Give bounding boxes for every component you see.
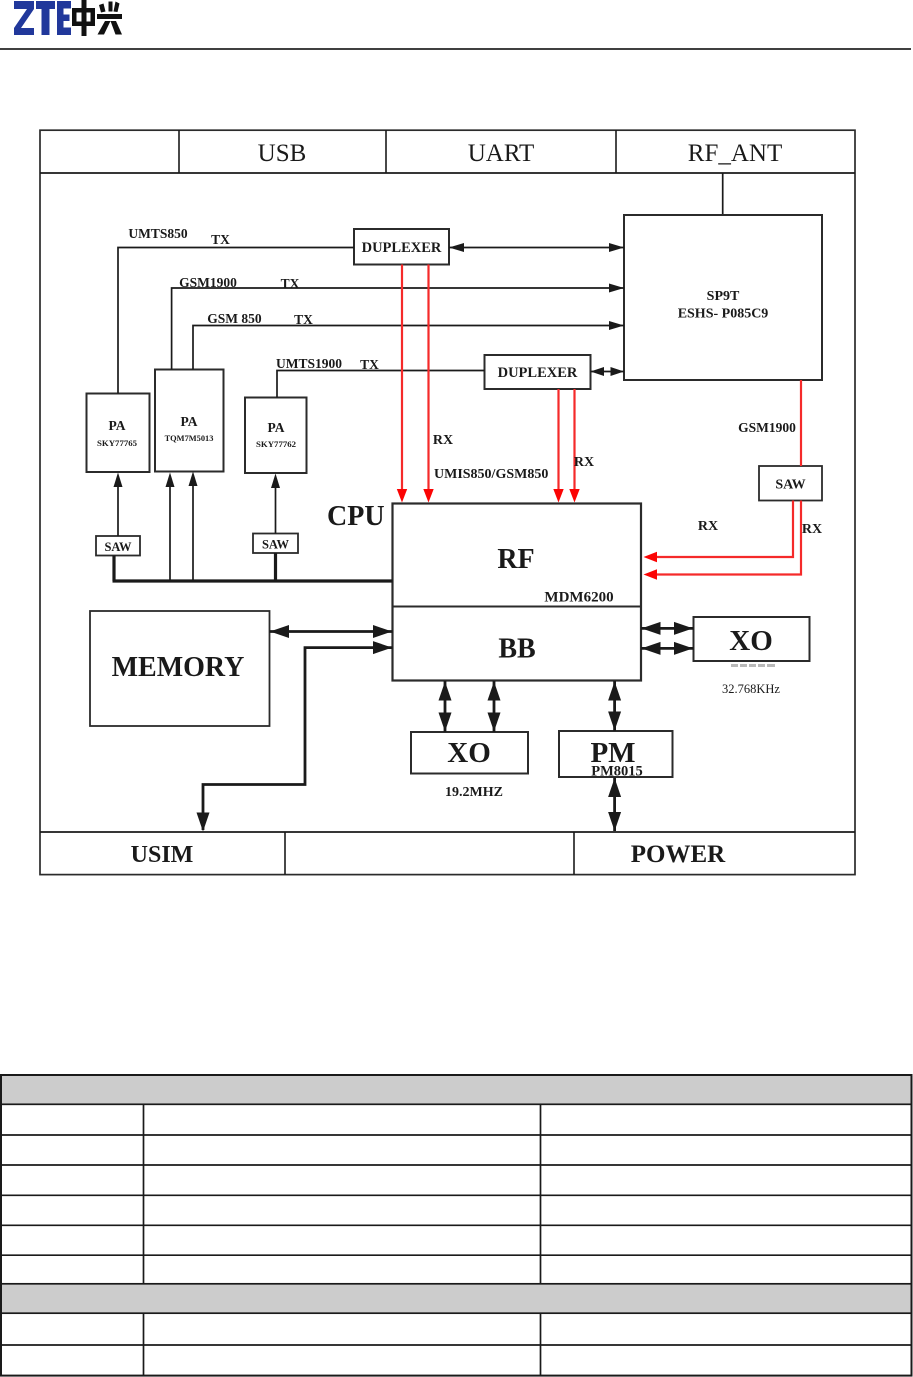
svg-text:PA: PA (181, 414, 198, 429)
svg-text:USB: USB (258, 140, 307, 167)
table row line 4 (1, 1224, 912, 1226)
top band divider 1 (178, 130, 180, 173)
wire TX bus to CPU (113, 579, 393, 582)
wire MEMORY to BB (270, 630, 393, 633)
SAW filter F1 (96, 536, 140, 556)
XO 32K block (694, 617, 810, 661)
bottom band line (40, 831, 855, 833)
MEMORY block (90, 611, 270, 726)
table row line 1 (1, 1134, 912, 1136)
CPU MDM6200 block (393, 504, 642, 681)
svg-text:GSM 850: GSM 850 (207, 311, 262, 326)
wire RX duplexer1 b (427, 265, 429, 493)
wire GSM1900 TX (172, 288, 624, 370)
table column divider 2 upper (540, 1104, 542, 1284)
svg-text:USIM: USIM (131, 842, 194, 868)
SAW filter F2 (253, 534, 298, 554)
table column divider 1 lower (143, 1313, 145, 1375)
table column divider 1 upper (143, 1104, 145, 1284)
svg-text:POWER: POWER (631, 841, 726, 868)
svg-text:19.2MHZ: 19.2MHZ (445, 785, 503, 800)
PA U4 SKY77765 (87, 394, 150, 473)
wire DUPLEXER1 to SP9T (449, 247, 624, 249)
duplexer U3 (485, 355, 591, 389)
wire SAW2 to PA3 (275, 478, 277, 534)
svg-text:GSM1900: GSM1900 (738, 420, 796, 435)
svg-text:BB: BB (498, 634, 535, 665)
svg-text:SAW: SAW (262, 538, 290, 552)
svg-text:UMTS850: UMTS850 (128, 226, 188, 241)
svg-text:DUPLEXER: DUPLEXER (362, 240, 442, 256)
table row line 3 (1, 1194, 912, 1196)
wire BB to USIM (203, 648, 393, 830)
wire DUPLEXER2 to SP9T (591, 371, 625, 373)
svg-text:TX: TX (294, 312, 313, 327)
wire UMTS1900 TX (277, 371, 485, 398)
XO 19.2M block (411, 732, 528, 774)
duplexer U2 (354, 229, 449, 265)
svg-text:ESHS- P085C9: ESHS- P085C9 (678, 307, 769, 322)
PM PM8015 block (559, 731, 673, 780)
table row line 6 (1, 1344, 912, 1346)
svg-text:CPU: CPU (327, 501, 385, 532)
svg-text:TX: TX (211, 232, 230, 247)
svg-text:MEMORY: MEMORY (112, 652, 245, 683)
logo 中兴 (72, 0, 122, 36)
wire BB to XO19M b (493, 681, 496, 732)
wire RX duplexer2 b (573, 389, 575, 492)
wire SAW2 stub (274, 553, 277, 581)
wire BB to XO32K a (641, 627, 694, 630)
wire RX duplexer2 a (557, 389, 559, 492)
svg-text:TQM7M5013: TQM7M5013 (165, 434, 214, 443)
table header band 2 (1, 1284, 912, 1313)
svg-text:RX: RX (698, 519, 718, 534)
table row line 5 (1, 1254, 912, 1256)
wire RX duplexer1 a (401, 265, 403, 493)
wire RF_ANT to SP9T (722, 173, 724, 215)
bottom band divider 1 (284, 832, 286, 875)
table column divider 2 lower (540, 1313, 542, 1375)
PA U5 TQM7M5013 (155, 370, 224, 472)
wire GSM850 TX (193, 326, 624, 370)
svg-text:UMIS850/GSM850: UMIS850/GSM850 (434, 467, 548, 482)
top band line (40, 172, 855, 174)
svg-text:PA: PA (109, 418, 126, 433)
svg-text:MDM6200: MDM6200 (544, 590, 613, 606)
svg-text:SKY77762: SKY77762 (256, 439, 297, 449)
svg-text:RX: RX (433, 433, 453, 448)
header rule (0, 48, 911, 50)
table header band 1 (1, 1075, 912, 1104)
svg-text:SKY77765: SKY77765 (97, 438, 138, 448)
antenna switch SP9T U1 (624, 215, 822, 380)
PA U6 SKY77762 (245, 398, 307, 474)
svg-text:XO: XO (729, 625, 773, 657)
wire UMTS850 TX (118, 248, 354, 394)
svg-text:PA: PA (268, 420, 285, 435)
svg-text:PM8015: PM8015 (591, 764, 643, 780)
svg-text:GSM1900: GSM1900 (179, 275, 237, 290)
redacted part number dashes (731, 664, 775, 667)
wire BB to PM (613, 681, 616, 731)
svg-text:SAW: SAW (104, 540, 132, 554)
wire bus to PA2 a (169, 477, 171, 581)
svg-text:TX: TX (281, 276, 300, 291)
table outer border (1, 1075, 912, 1376)
svg-text:XO: XO (447, 737, 491, 769)
wire SAW3 to RF a (648, 501, 793, 558)
table row line 2 (1, 1164, 912, 1166)
svg-text:RF_ANT: RF_ANT (688, 140, 782, 167)
bottom band divider 2 (573, 832, 575, 875)
wire BB to XO19M a (444, 681, 447, 732)
wire SP9T to SAW3 (800, 380, 802, 466)
top band divider 3 (615, 130, 617, 173)
wire SAW1 stub (112, 556, 115, 582)
svg-text:UMTS1900: UMTS1900 (276, 356, 342, 371)
SAW filter F3 (759, 466, 822, 501)
wire SAW1 to PA1 (117, 477, 119, 536)
svg-text:DUPLEXER: DUPLEXER (498, 365, 578, 381)
top band divider 2 (385, 130, 387, 173)
svg-text:UART: UART (468, 140, 535, 167)
svg-text:RF: RF (497, 544, 534, 575)
logo ZTE (14, 1, 71, 35)
svg-text:32.768KHz: 32.768KHz (722, 682, 780, 696)
table (1, 1075, 912, 1376)
svg-text:RX: RX (574, 455, 594, 470)
svg-text:TX: TX (360, 357, 379, 372)
wire PM to POWER (613, 778, 616, 832)
wire bus to PA2 b (192, 476, 194, 581)
wire BB to XO32K b (641, 647, 694, 650)
svg-text:SP9T: SP9T (707, 289, 740, 304)
wire SAW3 to RF b (648, 501, 801, 575)
svg-text:RX: RX (802, 522, 822, 537)
svg-text:SAW: SAW (775, 478, 805, 493)
